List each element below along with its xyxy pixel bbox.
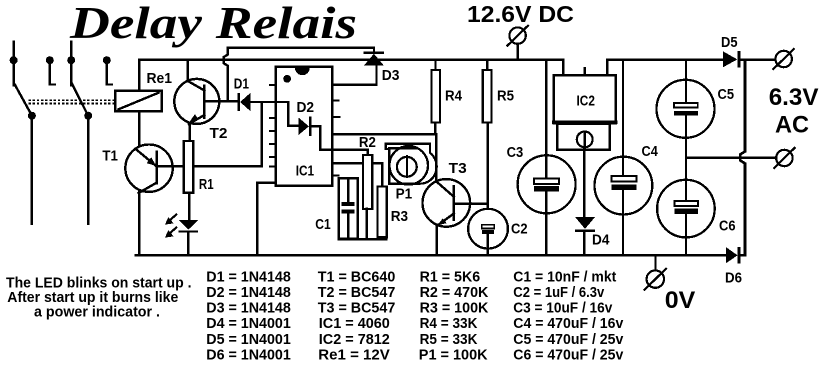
svg-text:P1 = 100K: P1 = 100K <box>419 348 488 364</box>
svg-text:D6 = 1N4001: D6 = 1N4001 <box>206 348 290 364</box>
svg-text:T1: T1 <box>102 148 118 164</box>
svg-text:C2 = 1uF / 6.3v: C2 = 1uF / 6.3v <box>513 285 604 301</box>
capacitor C5 <box>657 60 715 201</box>
transistor T3 <box>423 179 471 227</box>
terminal AC top <box>773 49 793 69</box>
svg-text:R4: R4 <box>445 89 462 105</box>
diode D2 <box>299 116 312 136</box>
svg-text:6.3V: 6.3V <box>769 84 819 111</box>
terminal 0V <box>645 257 667 290</box>
diode D5 <box>723 51 740 68</box>
svg-text:R5 = 33K: R5 = 33K <box>420 332 478 348</box>
resistor R4 <box>432 60 441 135</box>
potentiometer P1 <box>386 144 437 185</box>
svg-text:IC1: IC1 <box>296 164 314 180</box>
svg-text:R1 = 5K6: R1 = 5K6 <box>420 269 481 285</box>
parts list column 2 <box>318 269 396 363</box>
svg-text:R1: R1 <box>199 177 214 193</box>
wire IC1 pin to R3 top stem <box>332 163 382 186</box>
IC U1 4060 body <box>276 67 333 186</box>
wire 12V rail left segment with relay top stem <box>139 60 221 91</box>
svg-text:D1 = 1N4148: D1 = 1N4148 <box>206 269 290 285</box>
terminal AC centre <box>774 148 794 168</box>
wire right rail with jog over centre tap <box>740 60 745 256</box>
svg-text:D4 = 1N4001: D4 = 1N4001 <box>206 316 290 332</box>
svg-text:D3: D3 <box>382 68 400 84</box>
svg-text:D4: D4 <box>592 233 609 249</box>
svg-text:C5 = 470uF / 25v: C5 = 470uF / 25v <box>513 332 623 348</box>
svg-text:R2: R2 <box>359 135 376 151</box>
svg-text:IC2: IC2 <box>577 93 595 109</box>
wire T2 emitter to R1 top <box>189 124 191 141</box>
svg-text:12.6V DC: 12.6V DC <box>467 1 574 27</box>
svg-text:Re1 = 12V: Re1 = 12V <box>318 348 390 364</box>
wire R2 bottom stem <box>365 209 367 239</box>
svg-text:C3 = 10uF / 16v: C3 = 10uF / 16v <box>513 301 612 317</box>
wire IC1 pin to R4 lead and down to T3 base <box>332 134 436 180</box>
svg-text:C4 = 470uF / 16v: C4 = 470uF / 16v <box>513 316 623 332</box>
svg-text:T3: T3 <box>449 161 467 177</box>
LED emission arrow lower <box>165 228 176 238</box>
diode D4 <box>575 217 595 255</box>
resistor R2 <box>363 155 372 209</box>
svg-text:D3 = 1N4148: D3 = 1N4148 <box>206 301 290 317</box>
svg-text:D5: D5 <box>721 35 738 51</box>
svg-text:Re1: Re1 <box>147 71 173 87</box>
capacitor C1 loop <box>339 178 358 238</box>
IC1 right pin ticks <box>332 100 339 175</box>
switch contact S2 moving blade <box>67 42 92 224</box>
svg-text:C3: C3 <box>507 145 524 161</box>
wire D2 cathode out of IC1 to R2 top <box>311 126 367 155</box>
resistor R5 <box>483 60 492 209</box>
wire D5 to AC top terminal <box>741 59 776 61</box>
wire 12V rail right segment from IC2 input <box>607 60 723 76</box>
LED D7 indicator <box>179 220 198 255</box>
wire AC centre tap from C5 C6 node <box>686 157 776 159</box>
mechanical linkage dashed line <box>28 100 115 103</box>
svg-text:D2 = 1N4148: D2 = 1N4148 <box>206 285 290 301</box>
wire relay bottom to T1 <box>138 111 140 147</box>
svg-text:Delay Relais: Delay Relais <box>69 0 357 48</box>
transistor T2 <box>174 79 219 124</box>
resistor R3 <box>378 186 387 237</box>
wire R1 bottom to LED <box>188 193 190 221</box>
diode D6 <box>726 247 745 264</box>
wire T1 collector to 0V rail <box>138 190 140 255</box>
svg-text:T2 = BC547: T2 = BC547 <box>318 285 396 301</box>
svg-text:R3: R3 <box>391 209 408 225</box>
svg-text:C1 = 10nF / mkt: C1 = 10nF / mkt <box>513 269 616 285</box>
svg-text:D5 = 1N4001: D5 = 1N4001 <box>206 332 290 348</box>
switch contact S1 moving blade <box>10 42 36 224</box>
switch contact S2 fixed <box>103 56 112 84</box>
diode D1 <box>238 93 251 111</box>
parts list column 4 <box>513 269 623 363</box>
svg-text:C4: C4 <box>642 144 658 160</box>
svg-text:AC: AC <box>775 112 809 139</box>
switch contact S1 fixed <box>46 56 55 84</box>
wire 12V rail main segment to IC2 input corner <box>225 60 563 76</box>
wire T2 base to D1 <box>219 100 237 102</box>
svg-text:0V: 0V <box>665 287 696 314</box>
LED emission arrow upper <box>165 215 176 225</box>
capacitor C2 <box>468 209 508 255</box>
svg-text:IC2 = 7812: IC2 = 7812 <box>319 332 390 348</box>
transistor T1 <box>125 145 172 194</box>
svg-text:C6 = 470uF / 25v: C6 = 470uF / 25v <box>513 348 623 364</box>
svg-text:C2: C2 <box>511 221 528 237</box>
svg-text:D2: D2 <box>297 100 315 116</box>
wire D1 anode into IC1 to D2 anode <box>250 102 298 126</box>
svg-text:T2: T2 <box>210 126 228 142</box>
capacitor C3 <box>518 60 576 256</box>
svg-text:R4 = 33K: R4 = 33K <box>420 316 478 332</box>
svg-text:C1: C1 <box>315 217 330 233</box>
parts list column 1 <box>206 269 290 363</box>
svg-text:T1 = BC640: T1 = BC640 <box>318 269 396 285</box>
resistor R1 <box>184 141 193 193</box>
wire T2 collector stem to 12V rail <box>186 60 188 81</box>
svg-text:C6: C6 <box>719 219 736 235</box>
wire bottom bar C1 R2 R3 node <box>339 238 386 241</box>
wire top line to D3 cathode <box>228 48 374 52</box>
svg-text:D1: D1 <box>234 77 249 93</box>
terminal 12.6V DC <box>507 26 528 60</box>
wire D3 anode down and into IC1 right pin <box>332 65 376 84</box>
wire T1 base / R1 node to IC1 branch point <box>157 165 262 167</box>
diode D3 <box>364 51 384 65</box>
capacitor C6 <box>657 180 715 255</box>
wire T2 base node jog up to D3 line (crossing rail, no connection) <box>224 48 228 102</box>
svg-text:T3 = BC547: T3 = BC547 <box>318 301 396 317</box>
parts list column 3 <box>419 269 489 363</box>
capacitor C4 <box>595 60 653 256</box>
svg-text:R2 = 470K: R2 = 470K <box>420 285 489 301</box>
wire T3 emitter to 0V rail <box>436 227 438 256</box>
svg-text:R5: R5 <box>497 89 514 105</box>
svg-text:R3 = 100K: R3 = 100K <box>420 301 489 317</box>
wire IC2 bottom to D4 <box>583 150 585 217</box>
svg-text:C5: C5 <box>718 87 735 103</box>
svg-text:P1: P1 <box>396 186 413 202</box>
wire IC1 bottom left pin to 0V rail <box>257 183 275 256</box>
svg-text:IC1 = 4060: IC1 = 4060 <box>319 316 390 332</box>
relay Re1 coil <box>115 91 162 112</box>
svg-text:D6: D6 <box>725 271 742 287</box>
svg-text:a power indicator .: a power indicator . <box>34 304 160 320</box>
wire T3 collector to R5 C2 node <box>454 202 488 204</box>
wire 0V bottom rail <box>136 254 726 257</box>
IC U2 7812 regulator <box>554 68 616 150</box>
IC1 left pin ticks <box>270 85 276 167</box>
wire branch D1 node down to R1 node <box>260 102 262 166</box>
